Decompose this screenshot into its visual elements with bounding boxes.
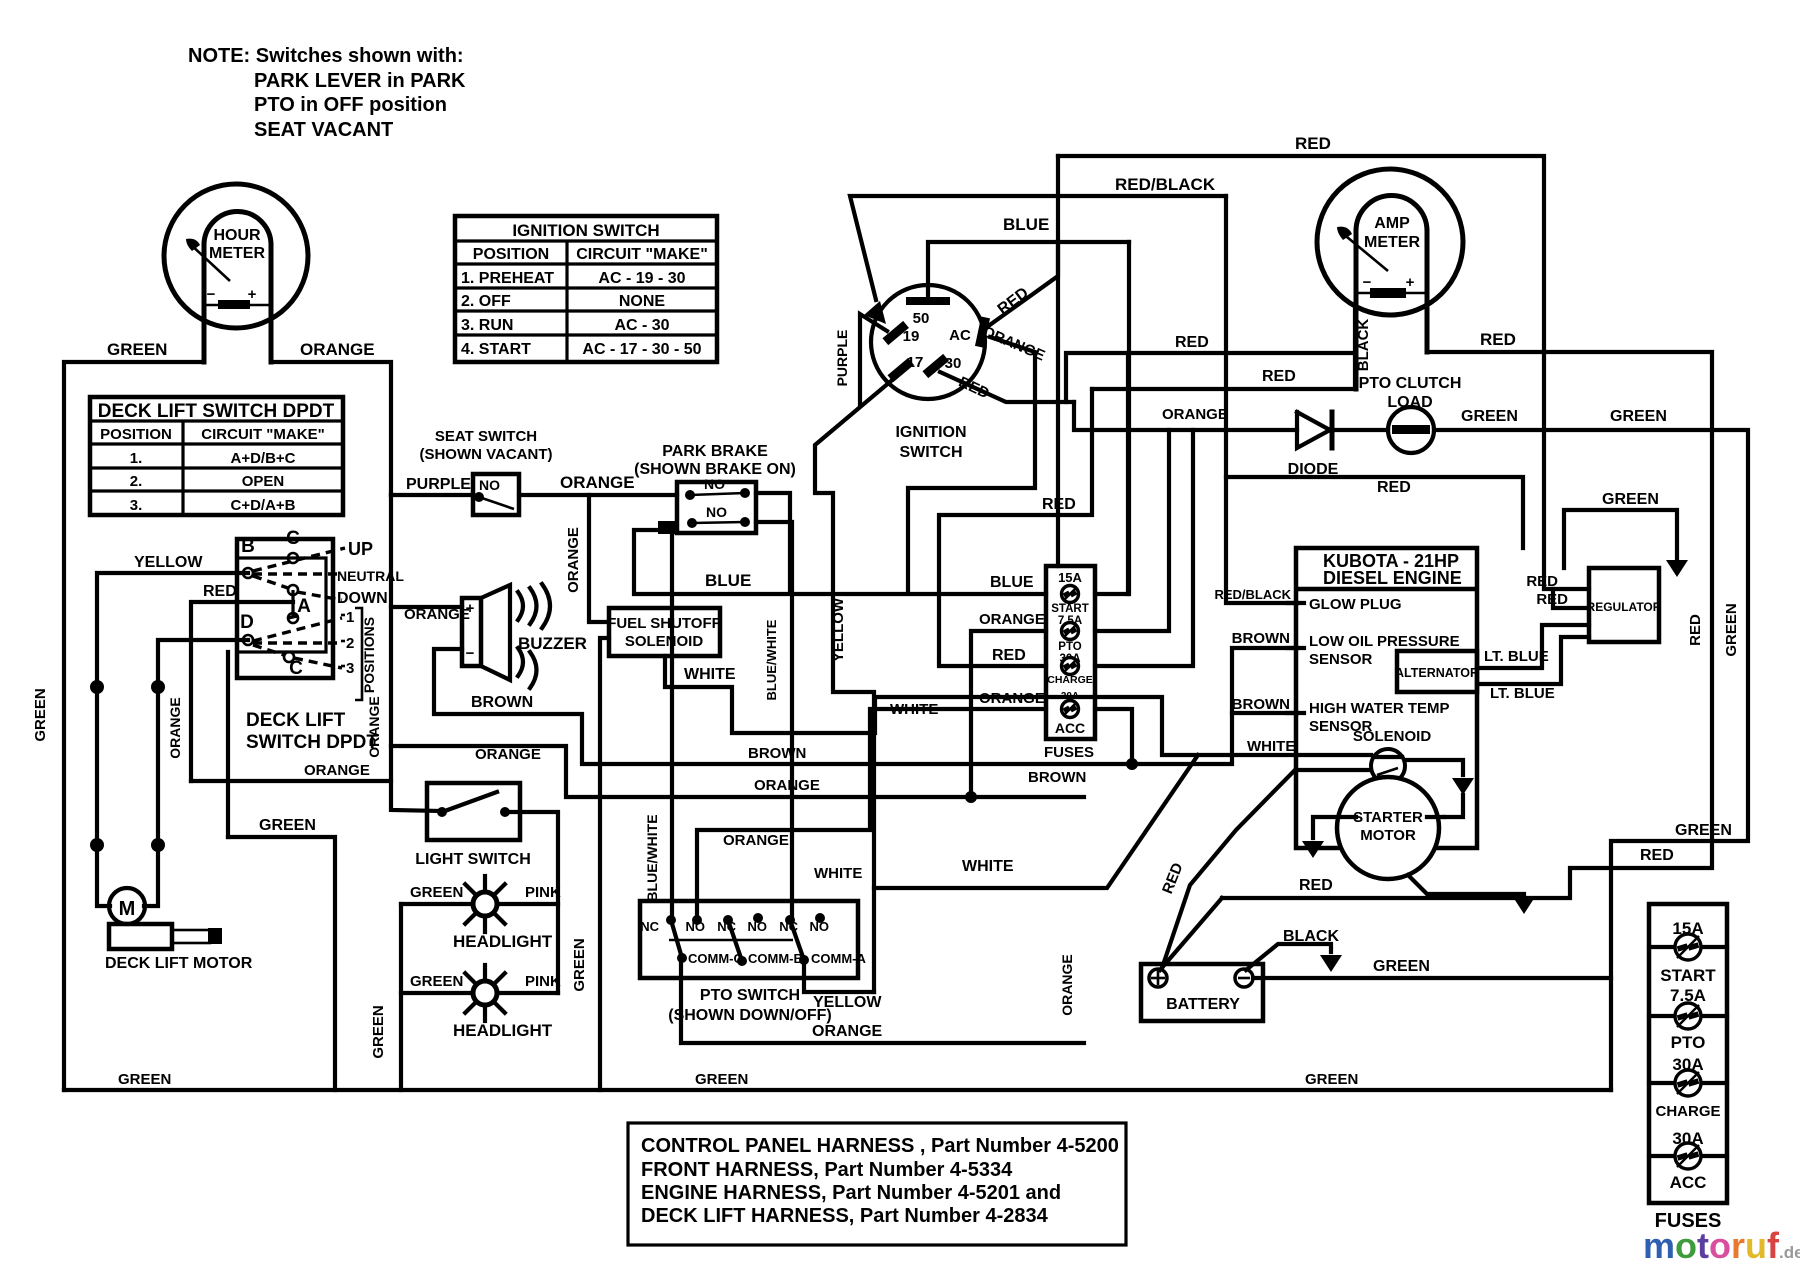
svg-text:NC: NC [640, 919, 659, 934]
svg-text:BROWN: BROWN [471, 694, 533, 711]
svg-text:CONTROL PANEL HARNESS , Part N: CONTROL PANEL HARNESS , Part Number 4-52… [641, 1135, 1119, 1157]
svg-text:PURPLE: PURPLE [834, 330, 850, 387]
amp meter gauge [1317, 169, 1463, 315]
wire park brake lower NO right white [756, 522, 792, 920]
svg-text:DECK LIFT MOTOR: DECK LIFT MOTOR [105, 955, 253, 972]
hour meter gauge [164, 184, 308, 328]
wire orange main vertical [391, 495, 442, 811]
svg-text:ORANGE: ORANGE [565, 527, 582, 593]
wire C bottom down [226, 652, 230, 837]
svg-text:17: 17 [907, 354, 924, 371]
svg-text:LIGHT SWITCH: LIGHT SWITCH [415, 851, 531, 868]
svg-text:HEADLIGHT: HEADLIGHT [453, 1021, 553, 1040]
svg-text:SEAT SWITCH: SEAT SWITCH [435, 428, 537, 445]
svg-text:BLUE/WHITE: BLUE/WHITE [764, 619, 779, 700]
svg-text:NO: NO [748, 919, 768, 934]
svg-text:START: START [1051, 603, 1088, 615]
svg-text:ORANGE: ORANGE [366, 696, 382, 757]
diode [1297, 412, 1330, 448]
svg-text:−: − [207, 286, 216, 303]
svg-text:BATTERY: BATTERY [1166, 996, 1240, 1013]
svg-text:ACC: ACC [1055, 720, 1085, 736]
svg-text:POSITION: POSITION [100, 426, 172, 443]
svg-text:REGULATOR: REGULATOR [1587, 600, 1662, 614]
wire starter bottom arrow [1408, 875, 1524, 894]
svg-text:ORANGE: ORANGE [979, 611, 1045, 628]
svg-text:15A: 15A [1058, 570, 1082, 585]
svg-text:RED: RED [1526, 573, 1558, 590]
svg-text:LT. BLUE: LT. BLUE [1490, 685, 1555, 702]
svg-text:COMM-B: COMM-B [748, 951, 803, 966]
svg-text:+: + [466, 600, 475, 617]
svg-text:COMM-A: COMM-A [811, 951, 866, 966]
svg-text:HOUR: HOUR [213, 227, 261, 244]
svg-text:GREEN: GREEN [32, 688, 49, 741]
svg-text:DIESEL ENGINE: DIESEL ENGINE [1323, 568, 1462, 588]
svg-text:CHARGE: CHARGE [1047, 674, 1093, 686]
kubota engine box [1296, 548, 1477, 848]
svg-text:NOTE: Switches shown with:: NOTE: Switches shown with: [188, 45, 464, 67]
buzzer [462, 598, 481, 666]
svg-text:(SHOWN VACANT): (SHOWN VACANT) [419, 446, 552, 463]
wire red regulator 2 [1553, 589, 1589, 608]
svg-text:D: D [240, 612, 254, 633]
svg-text:NO: NO [686, 919, 706, 934]
svg-text:DOWN: DOWN [337, 590, 388, 607]
wire red branch to diode orange [1074, 402, 1297, 430]
svg-text:DECK LIFT SWITCH DPDT: DECK LIFT SWITCH DPDT [98, 401, 335, 422]
svg-text:YELLOW: YELLOW [830, 597, 847, 662]
svg-text:30: 30 [945, 355, 962, 372]
svg-text:RED: RED [1480, 330, 1516, 349]
svg-text:C: C [286, 528, 300, 549]
starter motor [1337, 777, 1439, 879]
svg-text:WHITE: WHITE [962, 858, 1014, 875]
svg-text:50: 50 [913, 310, 930, 327]
svg-text:AC - 19 - 30: AC - 19 - 30 [598, 270, 685, 287]
svg-text:UP: UP [348, 539, 373, 559]
wire red/black vertical [1226, 196, 1297, 603]
svg-text:DECK LIFT: DECK LIFT [246, 710, 346, 731]
svg-text:2: 2 [346, 635, 354, 652]
svg-text:ORANGE: ORANGE [475, 746, 541, 763]
wire starter right up [1444, 795, 1463, 817]
svg-text:GREEN: GREEN [259, 817, 316, 834]
svg-text:NONE: NONE [619, 293, 666, 310]
vertical from AC into fuse block top [1056, 242, 1060, 566]
svg-text:AC: AC [949, 327, 971, 344]
svg-text:ALTERNATOR: ALTERNATOR [1395, 666, 1479, 680]
regulator [1589, 568, 1659, 642]
svg-text:FUEL SHUTOFF: FUEL SHUTOFF [607, 615, 721, 632]
svg-text:GREEN: GREEN [410, 973, 463, 990]
wire solenoid right arrow [1405, 760, 1463, 775]
svg-text:AC - 17 - 30 - 50: AC - 17 - 30 - 50 [582, 341, 701, 358]
deck lift switch dpdt table [90, 397, 343, 515]
svg-text:C+D/A+B: C+D/A+B [230, 497, 295, 514]
svg-text:START: START [1660, 966, 1716, 985]
svg-text:RED: RED [1295, 134, 1331, 153]
svg-text:RED: RED [1536, 591, 1568, 608]
svg-text:+: + [1406, 274, 1415, 291]
svg-text:RED/BLACK: RED/BLACK [1214, 587, 1291, 602]
svg-text:2.: 2. [130, 473, 143, 490]
svg-text:DECK LIFT HARNESS, Part Number: DECK LIFT HARNESS, Part Number 4-2834 [641, 1205, 1049, 1227]
svg-text:COMM-C: COMM-C [688, 951, 743, 966]
svg-text:GREEN: GREEN [695, 1071, 748, 1088]
svg-text:A+D/B+C: A+D/B+C [230, 450, 295, 467]
svg-text:3.: 3. [130, 497, 143, 514]
svg-text:PTO SWITCH: PTO SWITCH [700, 987, 800, 1004]
svg-text:1.: 1. [130, 450, 143, 467]
svg-text:ORANGE: ORANGE [1059, 954, 1075, 1015]
svg-text:GREEN: GREEN [1461, 408, 1518, 425]
svg-text:BROWN: BROWN [748, 745, 806, 762]
svg-text:PINK: PINK [525, 884, 561, 901]
svg-text:WHITE: WHITE [1247, 738, 1295, 755]
wire yellow from pin 17 [815, 376, 897, 992]
svg-text:BLUE: BLUE [705, 571, 751, 590]
svg-text:BLUE/WHITE: BLUE/WHITE [644, 814, 660, 901]
junction dots [90, 680, 104, 694]
svg-text:NO: NO [706, 504, 727, 520]
svg-text:M: M [119, 898, 136, 920]
svg-text:(SHOWN DOWN/OFF): (SHOWN DOWN/OFF) [668, 1007, 832, 1024]
svg-text:A: A [297, 596, 311, 617]
svg-text:ORANGE: ORANGE [979, 690, 1045, 707]
svg-text:ACC: ACC [1670, 1173, 1707, 1192]
wire starter left arrow [1313, 817, 1339, 838]
svg-text:WHITE: WHITE [684, 666, 736, 683]
svg-text:SENSOR: SENSOR [1309, 651, 1373, 668]
svg-text:RED: RED [1687, 614, 1704, 646]
wire pink to headlights [505, 812, 558, 993]
svg-text:YELLOW: YELLOW [134, 554, 203, 571]
svg-text:RED: RED [992, 647, 1026, 664]
svg-text:4. START: 4. START [461, 341, 531, 358]
brown U to sensors [1232, 648, 1297, 713]
svg-text:GREEN: GREEN [1602, 491, 1659, 508]
svg-text:FRONT HARNESS, Part Number 4-5: FRONT HARNESS, Part Number 4-5334 [641, 1159, 1013, 1181]
svg-text:NO: NO [810, 919, 830, 934]
svg-text:GREEN: GREEN [1305, 1071, 1358, 1088]
svg-text:PTO in OFF position: PTO in OFF position [254, 94, 447, 116]
svg-text:MOTOR: MOTOR [1360, 827, 1416, 844]
svg-text:RED/BLACK: RED/BLACK [1115, 175, 1216, 194]
svg-text:GREEN: GREEN [107, 340, 167, 359]
svg-text:GREEN: GREEN [1723, 603, 1740, 656]
svg-text:PURPLE: PURPLE [406, 476, 471, 493]
svg-text:RED: RED [203, 583, 237, 600]
light switch [427, 783, 520, 840]
svg-text:1: 1 [346, 609, 354, 626]
svg-text:PARK LEVER in PARK: PARK LEVER in PARK [254, 70, 466, 92]
right fuse panel [1649, 904, 1727, 1203]
svg-text:NO: NO [479, 477, 500, 493]
svg-text:WHITE: WHITE [814, 865, 862, 882]
svg-text:PTO: PTO [1671, 1033, 1706, 1052]
svg-text:B: B [241, 536, 255, 557]
svg-text:OPEN: OPEN [242, 473, 285, 490]
svg-text:ORANGE: ORANGE [723, 832, 789, 849]
svg-text:PTO: PTO [1058, 641, 1081, 653]
svg-text:BROWN: BROWN [1028, 769, 1086, 786]
svg-text:BUZZER: BUZZER [518, 634, 587, 653]
svg-text:motoruf.de: motoruf.de [1643, 1225, 1800, 1266]
svg-text:SWITCH DPDT: SWITCH DPDT [246, 732, 378, 753]
fuse block [1046, 566, 1095, 739]
svg-text:GREEN: GREEN [1610, 408, 1667, 425]
svg-text:RED: RED [1377, 479, 1411, 496]
svg-text:ORANGE: ORANGE [300, 340, 375, 359]
svg-text:2. OFF: 2. OFF [461, 293, 511, 310]
svg-text:GLOW PLUG: GLOW PLUG [1309, 596, 1402, 613]
svg-text:−: − [466, 645, 475, 662]
svg-text:GREEN: GREEN [1373, 958, 1430, 975]
svg-text:19: 19 [903, 328, 920, 345]
ignition switch table [455, 216, 717, 362]
svg-text:PINK: PINK [525, 973, 561, 990]
svg-text:NO: NO [704, 476, 725, 492]
svg-text:HEADLIGHT: HEADLIGHT [453, 932, 553, 951]
svg-text:CHARGE: CHARGE [1655, 1103, 1720, 1120]
svg-text:GREEN: GREEN [370, 1005, 387, 1058]
svg-text:STARTER: STARTER [1353, 809, 1423, 826]
wire red battery to starter circuit [1160, 898, 1222, 970]
deck lift switch internal diagram [237, 539, 333, 678]
svg-text:ORANGE: ORANGE [167, 697, 183, 758]
svg-text:GREEN: GREEN [1675, 822, 1732, 839]
battery [1141, 964, 1263, 1021]
svg-text:CIRCUIT "MAKE": CIRCUIT "MAKE" [576, 246, 708, 263]
svg-text:NEUTRAL: NEUTRAL [337, 568, 404, 584]
svg-text:RED: RED [1299, 877, 1333, 894]
svg-text:GREEN: GREEN [118, 1071, 171, 1088]
harness text box [628, 1123, 1126, 1245]
svg-text:SEAT VACANT: SEAT VACANT [254, 119, 393, 141]
svg-text:ORANGE: ORANGE [304, 762, 370, 779]
fuel shutoff solenoid [609, 608, 720, 656]
svg-text:POSITION: POSITION [473, 246, 549, 263]
svg-text:LOW OIL PRESSURE: LOW OIL PRESSURE [1309, 633, 1460, 650]
svg-text:FUSES: FUSES [1044, 744, 1094, 761]
svg-text:CIRCUIT "MAKE": CIRCUIT "MAKE" [201, 426, 324, 443]
alternator [1397, 651, 1477, 692]
svg-text:RED: RED [1262, 368, 1296, 385]
svg-text:HIGH WATER TEMP: HIGH WATER TEMP [1309, 700, 1450, 717]
svg-text:ORANGE: ORANGE [754, 777, 820, 794]
ignition switch [871, 285, 985, 399]
svg-text:BLACK: BLACK [1355, 319, 1372, 372]
svg-text:RED: RED [1175, 334, 1209, 351]
deck lift motor [109, 888, 145, 924]
svg-text:GREEN: GREEN [571, 938, 588, 991]
svg-text:BROWN: BROWN [1232, 696, 1290, 713]
pto switch [640, 901, 858, 978]
svg-text:RED: RED [1640, 847, 1674, 864]
wire D [144, 640, 248, 906]
svg-text:ORANGE: ORANGE [812, 1023, 883, 1040]
svg-text:1. PREHEAT: 1. PREHEAT [461, 270, 554, 287]
purple triangle [860, 314, 887, 404]
svg-text:PTO CLUTCH: PTO CLUTCH [1359, 375, 1462, 392]
wire blue fuse right [1095, 242, 1129, 594]
svg-text:WHITE: WHITE [890, 701, 938, 718]
svg-text:AC - 30: AC - 30 [614, 317, 669, 334]
svg-text:3: 3 [346, 660, 354, 677]
wire park brake upper NO to blue [756, 493, 790, 593]
svg-text:ORANGE: ORANGE [1162, 406, 1228, 423]
svg-text:SWITCH: SWITCH [899, 444, 962, 461]
svg-text:BLUE: BLUE [990, 574, 1034, 591]
svg-text:IGNITION SWITCH: IGNITION SWITCH [512, 221, 659, 240]
svg-text:METER: METER [1364, 234, 1420, 251]
svg-text:BROWN: BROWN [1232, 630, 1290, 647]
svg-text:GREEN: GREEN [410, 884, 463, 901]
svg-text:POSITIONS: POSITIONS [361, 617, 377, 693]
svg-text:SOLENOID: SOLENOID [1353, 728, 1432, 745]
svg-text:ORANGE: ORANGE [560, 473, 635, 492]
svg-text:3. RUN: 3. RUN [461, 317, 513, 334]
svg-text:SOLENOID: SOLENOID [625, 633, 704, 650]
svg-text:DIODE: DIODE [1288, 461, 1339, 478]
svg-text:METER: METER [209, 245, 265, 262]
svg-text:PARK BRAKE: PARK BRAKE [662, 443, 768, 460]
svg-text:BLUE: BLUE [1003, 215, 1049, 234]
svg-text:IGNITION: IGNITION [895, 424, 966, 441]
svg-text:ENGINE HARNESS, Part Number 4-: ENGINE HARNESS, Part Number 4-5201 and [641, 1182, 1061, 1204]
svg-text:LT. BLUE: LT. BLUE [1484, 648, 1549, 665]
svg-text:AMP: AMP [1374, 215, 1410, 232]
